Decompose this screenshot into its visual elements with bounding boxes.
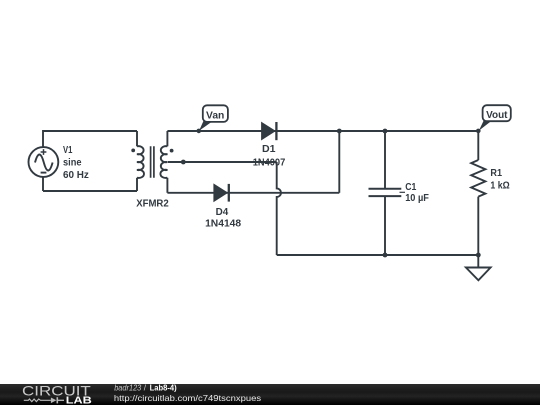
svg-text:badr123: badr123: [114, 384, 141, 393]
ground: [466, 255, 491, 280]
svg-text:Lab8-4): Lab8-4): [150, 384, 177, 393]
capacitor C1: [369, 189, 406, 196]
svg-text:1N4148: 1N4148: [205, 219, 241, 230]
logo diode: [51, 398, 57, 404]
label D1: [253, 144, 286, 168]
wire bottom rail primary: [43, 190, 137, 192]
svg-text:/: /: [144, 384, 147, 393]
voltage source V1: [29, 147, 59, 177]
logo resistor zigzag: [24, 399, 51, 402]
node flag Van: [197, 105, 228, 133]
wire center tap horizontal: [168, 161, 277, 163]
wire V1 left vertical top: [42, 130, 44, 148]
svg-text:1 kΩ: 1 kΩ: [490, 181, 509, 192]
wire C1 top vertical: [384, 131, 386, 189]
diode D4: [214, 184, 229, 202]
wire vertical riser bottom rail to top rail: [338, 131, 340, 193]
svg-text:LAB: LAB: [66, 396, 93, 405]
svg-text:Vout: Vout: [486, 110, 508, 121]
phase dot secondary: [170, 149, 174, 153]
label R1: [490, 168, 509, 192]
phase dot primary: [131, 149, 135, 153]
node flag Vout: [476, 105, 511, 133]
svg-text:Van: Van: [206, 110, 224, 121]
junction node dot ground: [476, 253, 481, 258]
svg-text:1N4007: 1N4007: [253, 157, 286, 168]
junction node dot center tap: [181, 160, 186, 165]
svg-text:D1: D1: [262, 144, 276, 155]
svg-text:60 Hz: 60 Hz: [63, 170, 89, 181]
svg-text:R1: R1: [490, 168, 502, 179]
svg-text:C1: C1: [405, 182, 416, 193]
svg-text:D4: D4: [216, 207, 229, 218]
wire ground rail bottom: [277, 254, 479, 256]
svg-text:http://circuitlab.com/c749tscn: http://circuitlab.com/c749tscnxpues: [114, 393, 261, 403]
wire bottom rail secondary: [167, 192, 339, 194]
svg-text:V1: V1: [63, 145, 73, 156]
wire V1 left vertical bottom: [42, 177, 44, 192]
wire top rail secondary: [167, 130, 478, 132]
svg-text:XFMR2: XFMR2: [136, 198, 169, 209]
svg-text:10 µF: 10 µF: [405, 193, 429, 204]
transformer XFMR2: [137, 131, 167, 193]
footer bar: [0, 384, 540, 405]
wire R1 bottom vertical: [477, 197, 479, 255]
label C1: [405, 182, 429, 204]
diode D1: [262, 122, 277, 140]
svg-text:sine: sine: [63, 158, 82, 169]
wire top rail primary: [43, 130, 137, 132]
wire center tap vertical with hop over bottom rail: [277, 162, 281, 255]
resistor R1: [471, 160, 485, 197]
wire R1 top vertical: [477, 131, 479, 160]
junction node dot C1 bottom: [383, 253, 388, 258]
label V1 name/value: [63, 145, 89, 181]
label D4: [205, 207, 241, 230]
junction node dot riser/top rail: [337, 129, 342, 134]
wire C1 bottom vertical: [384, 196, 386, 255]
junction node dot C1 top: [383, 129, 388, 134]
